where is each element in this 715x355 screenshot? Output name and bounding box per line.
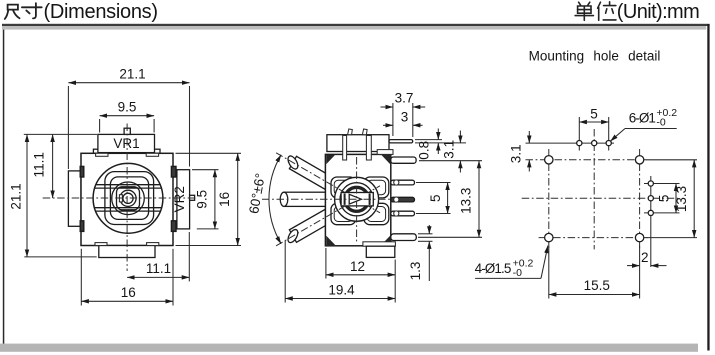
- dimension 21.1 left: [8, 134, 96, 257]
- svg-text:9.5: 9.5: [195, 190, 210, 209]
- mounting: horizontal centerline: [522, 197, 678, 199]
- potentiometer VR2 box: [172, 170, 190, 229]
- small hole 1: [577, 141, 582, 146]
- terminal pin C: [391, 211, 415, 216]
- shaft slot: [341, 193, 373, 206]
- mounting: top small holes marks: [526, 117, 615, 151]
- dimension 13.3 mounting: [646, 160, 697, 238]
- side view: bottom foot: [366, 246, 395, 257]
- svg-text:15.5: 15.5: [584, 278, 610, 293]
- svg-text:-0: -0: [513, 267, 522, 279]
- rocker bar lower: [94, 208, 161, 211]
- front view: bottom edge bumps: [95, 243, 159, 246]
- frame left border: [3, 30, 5, 344]
- terminal pin B wiper: [391, 197, 415, 202]
- svg-text:13.3: 13.3: [674, 186, 689, 212]
- gimbal inner rounded square: [110, 177, 148, 220]
- potentiometer VR1 box: [98, 134, 155, 152]
- side view: corner gusset bottom-right: [381, 236, 390, 245]
- dimension 12 bottom: [326, 248, 395, 303]
- svg-text:6-Ø1: 6-Ø1: [629, 111, 656, 126]
- pot legs through box: [343, 136, 372, 161]
- front view: top edge bumps: [93, 149, 160, 153]
- dimension 19.4 bottom: [285, 241, 395, 303]
- svg-text:60°±6°: 60°±6°: [246, 172, 268, 215]
- svg-text:0.8: 0.8: [416, 141, 431, 160]
- gimbal outer rounded square: [105, 172, 154, 225]
- small hole 4: [648, 181, 653, 186]
- svg-text:5: 5: [656, 195, 671, 203]
- title 尺寸 hand-drawn glyphs: [5, 3, 42, 19]
- svg-text:13.3: 13.3: [458, 188, 473, 214]
- front vertical centerline: [126, 124, 128, 272]
- small hole 5: [648, 196, 653, 201]
- dimension 3.7: [381, 91, 426, 137]
- side view: bottom foot lip: [363, 242, 396, 246]
- side view: upper tilted shaft: [286, 154, 338, 192]
- dimension 15.5 mounting: [549, 244, 640, 299]
- mounting: right small holes marks: [644, 184, 680, 213]
- svg-text:16: 16: [217, 192, 232, 207]
- gimbal frame quadrant BR: [364, 203, 389, 224]
- dimension 16 bottom: [81, 249, 173, 306]
- small hole 2: [592, 141, 597, 146]
- svg-text:3: 3: [401, 110, 409, 125]
- dimension 3.1 mounting: [508, 131, 529, 172]
- svg-text:-0: -0: [656, 117, 665, 129]
- svg-text:5: 5: [428, 195, 443, 203]
- shaft center circle: [123, 193, 133, 203]
- dimension 11.1 left: [24, 134, 97, 198]
- front view: left mounting flange: [68, 171, 81, 226]
- mounting: vertical centerline: [593, 129, 595, 249]
- frame right border: [707, 24, 709, 351]
- VR1 legs under body edge: [96, 153, 159, 156]
- svg-text:1.3: 1.3: [408, 262, 423, 281]
- dimension 13.3 side: [418, 161, 482, 238]
- front view: body outline: [81, 153, 173, 245]
- side view: body outline: [325, 154, 390, 245]
- lower shaft axis centerline: [276, 186, 380, 246]
- VR1 top pin: [124, 128, 130, 134]
- side view: lower tilted shaft: [286, 206, 338, 244]
- side view: corner gusset bottom-left: [326, 236, 335, 245]
- svg-text:Mounting hole detail: Mounting hole detail: [529, 49, 661, 64]
- dimension 1.3: [408, 225, 433, 281]
- side view: corner gusset top-left: [326, 155, 335, 164]
- small hole 6: [648, 210, 653, 215]
- side vertical centerline: [356, 157, 358, 244]
- pot box bent tabs: [348, 129, 368, 135]
- dimension 2 mounting: [627, 244, 667, 299]
- VR2 side pin: [190, 195, 195, 200]
- top terminal pin: [389, 140, 413, 143]
- svg-text:12: 12: [350, 259, 365, 274]
- dimension 3.1 side: [419, 131, 482, 173]
- svg-text:(Dimensions): (Dimensions): [44, 1, 159, 23]
- slot arrow glyph: [349, 194, 361, 204]
- svg-text:19.4: 19.4: [328, 282, 355, 297]
- svg-text:4-Ø1.5: 4-Ø1.5: [475, 261, 512, 276]
- terminal pin A: [391, 180, 415, 185]
- shaft key nub: [119, 195, 122, 202]
- mounting: small holes column centerline: [650, 176, 652, 267]
- svg-text:3.1: 3.1: [508, 144, 523, 163]
- mounting: left hole column centerline: [548, 149, 550, 249]
- svg-text:VR1: VR1: [113, 136, 139, 151]
- front view: bottom tab: [99, 246, 155, 258]
- rocker bar upper: [95, 185, 162, 188]
- hub rounded square: [117, 187, 140, 210]
- svg-text:(Unit):mm: (Unit):mm: [617, 1, 700, 23]
- mounting: bottom hole row centerline: [539, 237, 648, 239]
- svg-text:9.5: 9.5: [118, 100, 137, 115]
- dimension 5 mounting top: [579, 106, 608, 122]
- hub ring: [112, 182, 145, 215]
- front view: side nubs left: [80, 166, 84, 231]
- shaft hole circle: [120, 190, 136, 206]
- pivot dark ring: [345, 187, 369, 211]
- dimension 3: [383, 110, 423, 126]
- dimension 21.1 top: [68, 67, 189, 170]
- dimension 5 mounting right: [656, 184, 676, 213]
- svg-text:5: 5: [590, 106, 598, 121]
- mounting hole top-right: [635, 156, 643, 164]
- frame top dark rule: [2, 24, 710, 26]
- small hole 3: [606, 141, 611, 146]
- pot right flange: [377, 150, 393, 155]
- dimension 16 right: [176, 153, 242, 245]
- frame bottom gray bar: [0, 344, 698, 352]
- mounting hole bottom-right: [635, 233, 643, 241]
- pivot outer circle: [335, 177, 379, 221]
- dimension 0.8: [415, 129, 466, 160]
- right mounting tab upper: [391, 157, 416, 163]
- label 6-diameter-1 with tolerance: [610, 107, 677, 141]
- svg-text:21.1: 21.1: [119, 67, 145, 82]
- upper shaft axis centerline: [276, 153, 380, 213]
- mounting hole top-left: [545, 156, 553, 164]
- dimension 5 side: [416, 183, 451, 214]
- front horizontal centerline: [43, 197, 197, 199]
- side view: pot box on top: [327, 135, 389, 152]
- right mounting tab lower: [391, 234, 417, 241]
- pivot ring: [340, 183, 373, 216]
- svg-text:16: 16: [121, 285, 136, 300]
- gimbal frame quadrant TR: [364, 177, 389, 198]
- dimension 11.1 bottom: [127, 232, 189, 281]
- unit label 单位 hand-drawn glyphs: [575, 2, 616, 21]
- label 4-diameter-1.5 with tolerance: [475, 246, 548, 280]
- svg-text:2: 2: [641, 250, 649, 265]
- side horizontal centerline: [262, 198, 393, 200]
- angle arc 60 degrees: [246, 155, 281, 244]
- mounting hole bottom-left: [545, 233, 553, 241]
- gimbal frame quadrant BL: [331, 203, 356, 224]
- side view: horizontal shaft: [280, 192, 332, 206]
- svg-text:VR2: VR2: [172, 186, 187, 212]
- mounting: top hole row centerline: [526, 159, 647, 161]
- front view: side nubs right: [171, 166, 176, 231]
- rotor opening circle: [93, 163, 163, 233]
- dimension 9.5 right of VR2: [192, 170, 219, 229]
- gimbal frame quadrant TL: [331, 177, 356, 198]
- svg-text:11.1: 11.1: [146, 261, 171, 276]
- svg-text:11.1: 11.1: [32, 152, 47, 177]
- svg-text:3.1: 3.1: [442, 140, 457, 159]
- mounting hole detail title: [529, 49, 661, 64]
- frame top gray band: [2, 26, 706, 30]
- svg-text:21.1: 21.1: [8, 183, 23, 209]
- dimension 9.5 top: [100, 100, 155, 133]
- svg-text:3.7: 3.7: [395, 91, 414, 106]
- side view: corner gusset top-right: [381, 155, 390, 164]
- mounting: right hole column centerline: [639, 149, 641, 249]
